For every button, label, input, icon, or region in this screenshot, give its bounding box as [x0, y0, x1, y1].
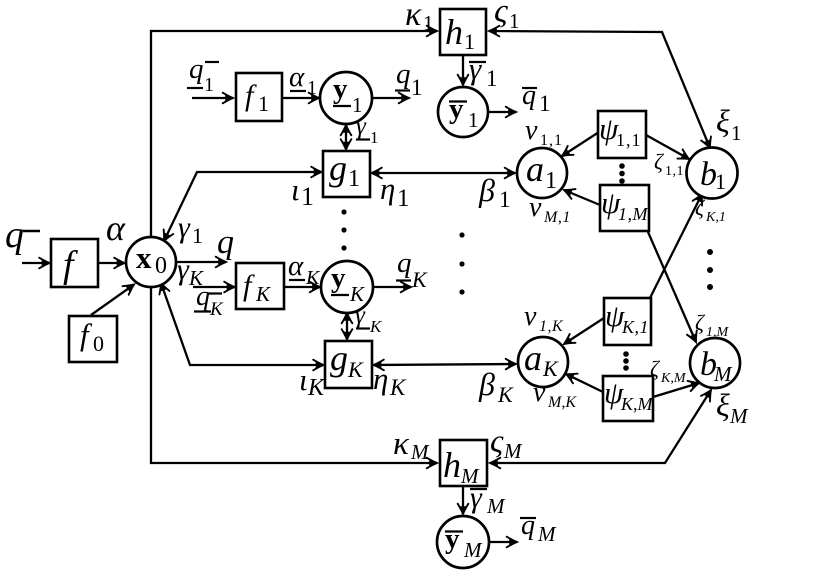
- svg-text:a: a: [524, 338, 542, 378]
- svg-text:β: β: [478, 172, 495, 208]
- svg-text:K: K: [369, 317, 383, 336]
- svg-text:1: 1: [545, 168, 557, 194]
- svg-text:β: β: [478, 366, 495, 402]
- wire x0 to h1 (kappa_1): [151, 31, 437, 237]
- svg-text:ζ: ζ: [695, 195, 706, 220]
- node b1: [687, 148, 738, 199]
- svg-text:ζ: ζ: [695, 310, 706, 335]
- svg-text:κ: κ: [393, 426, 410, 462]
- wire f to x0 (alpha): [98, 262, 125, 264]
- box gK: [325, 341, 372, 388]
- wire x0-gK (iota_K / gamma_K): [161, 283, 324, 365]
- svg-text:ν: ν: [525, 115, 538, 146]
- svg-text:1: 1: [192, 223, 203, 248]
- wire ybarM out (qbar_M): [488, 541, 517, 543]
- svg-text:K: K: [411, 267, 428, 292]
- svg-text:η: η: [373, 361, 388, 396]
- svg-text:K,M: K,M: [620, 394, 654, 414]
- wire x0-g1 (iota_1 / gamma_1): [164, 172, 322, 241]
- wire ybar1 out (qbar_1): [488, 111, 516, 113]
- svg-text:1: 1: [370, 128, 379, 147]
- svg-text:0: 0: [93, 331, 104, 356]
- box g1: [323, 151, 370, 197]
- svg-text:1: 1: [307, 77, 317, 99]
- wire g1-a1 (eta_1 / beta_1): [372, 172, 516, 174]
- svg-text:K: K: [347, 357, 364, 382]
- wire psiKM to aK (nu_M,K): [566, 374, 603, 392]
- svg-text:ξ: ξ: [716, 103, 730, 139]
- svg-text:ι: ι: [299, 362, 308, 397]
- svg-text:1: 1: [499, 187, 511, 212]
- svg-text:K: K: [209, 299, 224, 320]
- box psiK1: [604, 298, 651, 345]
- wire yK-gK (gamma_K): [346, 313, 348, 340]
- svg-text:M,1: M,1: [543, 209, 571, 226]
- svg-text:K: K: [255, 282, 271, 306]
- svg-text:q: q: [196, 281, 210, 312]
- svg-text:1,1: 1,1: [616, 130, 642, 150]
- svg-text:1,M: 1,M: [618, 204, 649, 224]
- wire gK-aK (eta_K / beta_K): [374, 364, 517, 365]
- dots psi1 column: [619, 163, 625, 169]
- node x0: [126, 237, 176, 287]
- svg-text:1: 1: [411, 75, 423, 100]
- svg-text:η: η: [380, 171, 395, 206]
- svg-text:q: q: [522, 80, 536, 111]
- box psiKM: [603, 376, 653, 421]
- svg-text:1: 1: [204, 74, 214, 96]
- svg-text:h: h: [445, 12, 463, 52]
- wire psi11 to b1 (zeta_1,1): [646, 135, 689, 159]
- wire qminus input: [22, 262, 50, 264]
- node bM: [690, 338, 740, 388]
- node aK: [518, 337, 568, 387]
- node ybar1: [438, 87, 488, 137]
- wire y1-g1 (gamma_1): [345, 125, 347, 150]
- box f0: [69, 316, 117, 362]
- svg-text:1: 1: [468, 108, 479, 132]
- wire psi1M to a1 (nu_M,1): [564, 190, 600, 205]
- svg-text:a: a: [526, 149, 544, 189]
- svg-text:ζ: ζ: [654, 149, 665, 174]
- svg-text:q: q: [396, 58, 411, 90]
- svg-text:γ: γ: [469, 51, 482, 86]
- dots middle column: [459, 232, 464, 237]
- svg-text:q: q: [217, 224, 234, 261]
- wire qKminus input: [193, 286, 235, 288]
- dots psiK column: [623, 351, 629, 357]
- svg-text:K: K: [305, 267, 321, 289]
- svg-text:ς: ς: [494, 0, 508, 30]
- wire fK to yK (alpha_K): [284, 286, 320, 288]
- box f1: [236, 73, 282, 121]
- svg-text:κ: κ: [405, 0, 422, 33]
- svg-text:M: M: [410, 440, 430, 464]
- svg-text:1: 1: [715, 169, 726, 194]
- wire psiK1 to aK (nu_1,K): [564, 318, 604, 344]
- svg-text:ς: ς: [490, 424, 504, 460]
- node y1: [320, 72, 372, 124]
- svg-text:q: q: [397, 247, 412, 279]
- svg-text:1: 1: [539, 91, 551, 116]
- svg-text:g: g: [329, 148, 347, 188]
- node yK: [321, 261, 373, 313]
- node ybarM: [437, 516, 489, 568]
- svg-text:q: q: [5, 214, 24, 256]
- svg-text:x: x: [136, 240, 152, 275]
- svg-text:M: M: [503, 439, 523, 463]
- svg-text:q: q: [189, 53, 204, 85]
- svg-text:h: h: [443, 445, 461, 485]
- wire x0 out (q): [177, 261, 226, 263]
- svg-text:ν: ν: [529, 192, 542, 223]
- svg-text:y: y: [449, 93, 464, 125]
- svg-text:ξ: ξ: [716, 387, 730, 423]
- svg-text:1: 1: [397, 185, 410, 212]
- svg-text:1: 1: [348, 166, 360, 192]
- svg-text:0: 0: [155, 253, 167, 279]
- svg-text:y: y: [333, 73, 348, 105]
- wire psiKM to bM (zeta_K,M): [653, 383, 699, 397]
- svg-text:M: M: [463, 538, 483, 562]
- dots b column: [707, 249, 713, 255]
- svg-text:α: α: [289, 61, 305, 93]
- svg-text:M,K: M,K: [547, 394, 577, 411]
- box h1: [440, 9, 486, 55]
- svg-text:1: 1: [301, 182, 314, 211]
- svg-text:K,1: K,1: [705, 210, 726, 225]
- wire f0 to x0: [91, 285, 134, 316]
- svg-text:M: M: [486, 494, 506, 518]
- svg-text:K,1: K,1: [621, 317, 649, 337]
- node a1: [517, 148, 567, 198]
- wire b1 to h1 (varsigma_1 / xi_1): [489, 31, 710, 148]
- svg-text:γ: γ: [355, 302, 366, 329]
- wire h1 to ybar1 (gammabar_1): [462, 55, 464, 85]
- svg-text:γ: γ: [178, 211, 191, 244]
- svg-text:1: 1: [731, 121, 742, 145]
- svg-text:K: K: [307, 375, 326, 401]
- svg-text:q: q: [521, 510, 535, 541]
- svg-text:ν: ν: [524, 301, 537, 332]
- box psi1M: [600, 185, 649, 231]
- svg-text:1: 1: [486, 66, 498, 91]
- svg-text:g: g: [330, 338, 348, 378]
- svg-text:1: 1: [423, 11, 434, 35]
- wire q1minus input: [192, 97, 233, 99]
- svg-text:K,M: K,M: [660, 371, 687, 386]
- svg-text:γ: γ: [470, 481, 483, 514]
- svg-text:M: M: [713, 362, 733, 386]
- wire bM to hM (varsigma_M / xi_M): [490, 390, 711, 463]
- svg-text:ζ: ζ: [650, 356, 661, 381]
- svg-text:1,1: 1,1: [665, 164, 684, 179]
- wire hM to ybarM (gammabar_M): [462, 486, 464, 514]
- wire x0 to hM (kappa_M): [151, 287, 437, 463]
- wire y1 out (q_1): [372, 97, 409, 99]
- svg-text:K: K: [389, 375, 407, 400]
- svg-text:1,1: 1,1: [540, 132, 563, 149]
- box hM: [440, 440, 487, 486]
- svg-text:γ: γ: [356, 113, 367, 140]
- svg-text:1: 1: [509, 9, 520, 33]
- svg-text:M: M: [537, 522, 557, 546]
- wire psi1M to bM (zeta_1,M): [648, 232, 696, 342]
- wire psi11 to a1 (nu_1,1): [562, 132, 599, 156]
- svg-text:K: K: [497, 382, 514, 407]
- wire yK out (q_K): [373, 286, 411, 288]
- box psi11: [598, 111, 646, 158]
- box f: [51, 239, 98, 287]
- svg-text:ι: ι: [291, 172, 300, 207]
- box fK: [236, 263, 284, 309]
- dots below g1: [341, 209, 346, 214]
- svg-text:1,M: 1,M: [706, 325, 730, 340]
- svg-text:M: M: [729, 404, 749, 428]
- svg-text:1,K: 1,K: [539, 318, 564, 335]
- wire f1 to y1 (alpha_1): [282, 97, 319, 99]
- svg-text:α: α: [106, 208, 126, 248]
- svg-text:1: 1: [258, 91, 269, 116]
- svg-text:α: α: [288, 250, 304, 282]
- svg-text:y: y: [445, 523, 460, 555]
- svg-text:y: y: [331, 262, 346, 294]
- svg-text:ν: ν: [533, 377, 546, 408]
- wire psiK1 to b1 (zeta_K,1): [650, 194, 702, 298]
